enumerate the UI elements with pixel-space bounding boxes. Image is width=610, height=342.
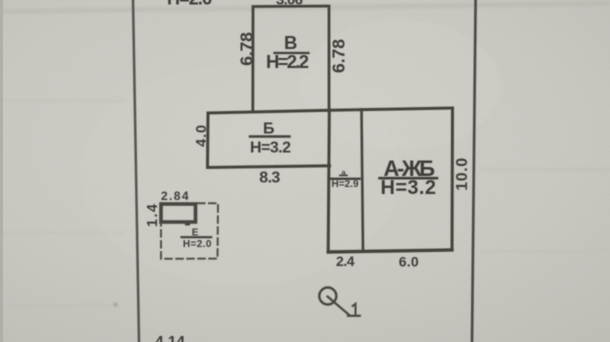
junction dot at shed corner: [185, 221, 190, 226]
fraction bar of В / Н=2.2: [275, 52, 309, 54]
dashed lot rectangle: [161, 203, 218, 258]
building B (letter V) outline: [253, 6, 329, 112]
paper edge shade left: [0, 0, 3, 342]
fraction bar of а / Н=2.9: [331, 178, 360, 180]
small shed solid rectangle: [161, 204, 196, 222]
building А-ЖБ bottom wall: [328, 250, 452, 252]
survey symbol leader line: [328, 297, 350, 316]
underline of а: [340, 174, 347, 176]
dust speck: [114, 303, 117, 306]
survey symbol figure 1: [353, 304, 356, 315]
partition wall between annex а and А-ЖБ: [362, 110, 364, 252]
fraction bar of А-ЖБ / Н=3.2: [380, 177, 438, 180]
wire right site boundary line: [472, 0, 476, 342]
fraction bar of Е / Н=2.0: [182, 236, 212, 238]
soft light sheen: [300, 20, 500, 150]
building А-ЖБ left wall: [328, 110, 329, 252]
building Б outline: [208, 113, 330, 168]
survey symbol base bar: [348, 315, 360, 317]
building А-ЖБ right wall: [451, 108, 455, 250]
wire left site boundary line: [133, 0, 139, 342]
fraction bar of Б / Н=3.2: [250, 135, 290, 137]
faint streaks: [0, 100, 610, 307]
shared top edge of building Б and А-ЖБ: [208, 108, 453, 113]
survey symbol circle: [319, 288, 336, 305]
top crease band: [0, 1, 610, 14]
